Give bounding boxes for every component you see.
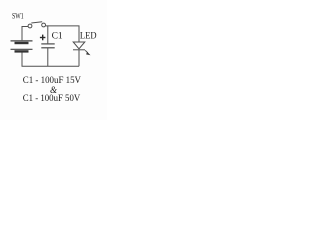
svg-text:C1: C1 <box>52 32 63 42</box>
svg-text:LED: LED <box>80 30 97 40</box>
svg-text:C1 - 100uF 50V: C1 - 100uF 50V <box>23 94 81 104</box>
svg-text:SW1: SW1 <box>12 12 24 21</box>
